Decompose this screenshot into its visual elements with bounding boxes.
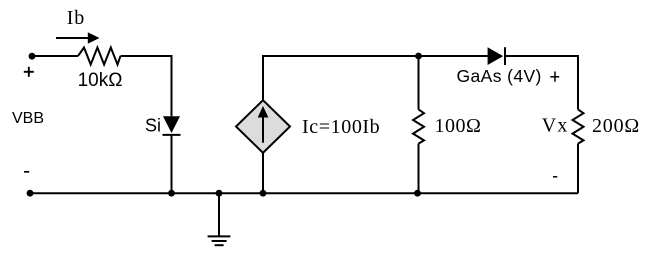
plus sign VBB	[24, 67, 34, 77]
ground	[208, 236, 231, 245]
svg-text:100Ω: 100Ω	[435, 115, 482, 137]
diode D1 Si (pointing down)	[163, 116, 181, 135]
node dot: VBB- terminal	[27, 190, 34, 197]
svg-text:GaAs (4V): GaAs (4V)	[457, 66, 542, 86]
node dot: Si bottom junction	[168, 190, 175, 197]
node dot: 100 ohm bottom junction	[414, 190, 421, 197]
node dot: top junction 100 ohm	[415, 53, 422, 60]
arrow Ib	[56, 32, 100, 43]
wire: GaAs diode cathode to right corner	[505, 56, 578, 109]
node dot: source bottom junction	[260, 190, 267, 197]
wire: bottom rail	[30, 192, 578, 194]
wire: ground stem	[218, 193, 220, 236]
svg-text:Ib: Ib	[67, 7, 85, 29]
wire: 200 ohm resistor to bottom rail	[577, 144, 579, 194]
node dot: ground junction	[216, 190, 223, 197]
svg-text:Vx: Vx	[542, 115, 569, 137]
diode D2 GaAs (pointing right)	[488, 47, 505, 65]
svg-text:200Ω: 200Ω	[592, 115, 640, 137]
wire: Si diode cathode to bottom rail	[171, 135, 173, 193]
resistor 100 Ohm	[413, 109, 424, 143]
minus sign Vx	[553, 176, 557, 178]
resistor 10kOhm	[78, 48, 121, 65]
wire: 100 ohm branch bottom	[418, 144, 420, 194]
dependent current source Ic	[236, 100, 290, 153]
resistor 200 Ohm	[573, 109, 584, 143]
svg-text:Si: Si	[145, 116, 161, 136]
node dot: VBB+ terminal	[29, 53, 36, 60]
wire: current source bottom riser	[262, 153, 264, 193]
plus sign Vx	[550, 72, 559, 82]
svg-text:Ic=100Ib: Ic=100Ib	[302, 116, 380, 138]
svg-text:10kΩ: 10kΩ	[78, 70, 123, 91]
wire: resistor 10k to Si diode branch corner	[121, 56, 172, 116]
wire: 100 ohm branch top	[418, 56, 420, 109]
minus sign VBB	[24, 171, 29, 173]
wire: current source top riser	[263, 56, 488, 100]
svg-text:VBB: VBB	[12, 110, 44, 127]
wire: VBB+ to resistor 10k	[32, 55, 78, 57]
